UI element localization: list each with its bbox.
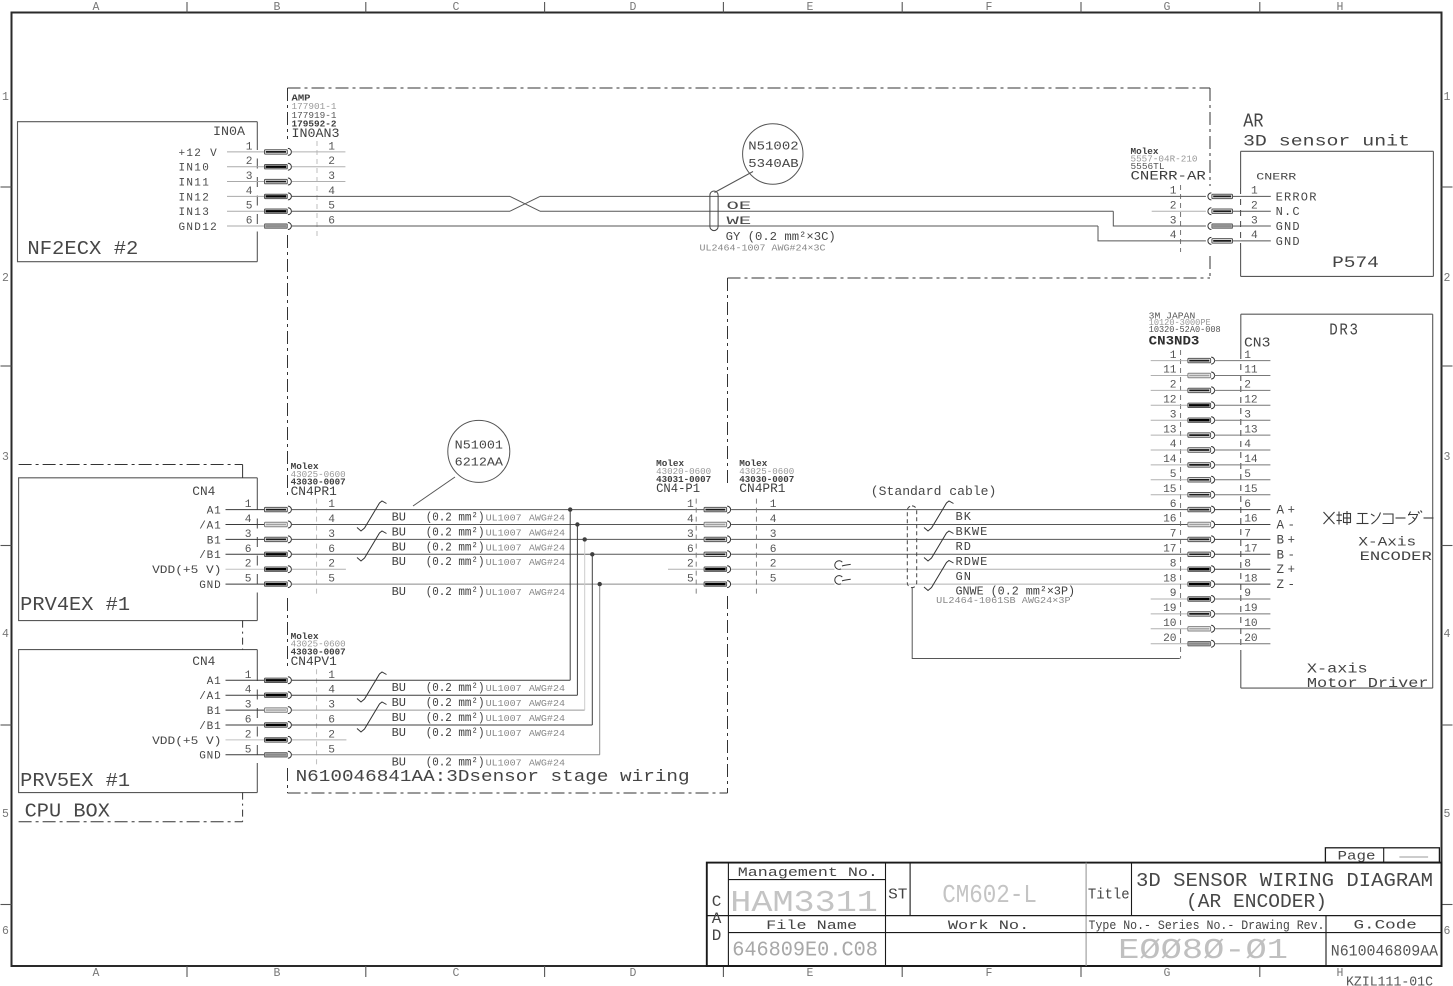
svg-text:(0.2 mm²): (0.2 mm²) — [426, 540, 485, 554]
svg-text:E: E — [807, 967, 814, 980]
svg-text:Work No.: Work No. — [948, 918, 1029, 933]
svg-text:C: C — [453, 1, 460, 14]
svg-text:6: 6 — [687, 544, 694, 556]
svg-text:6: 6 — [1244, 499, 1251, 511]
svg-text:13: 13 — [1244, 424, 1257, 436]
svg-text:4: 4 — [246, 186, 253, 198]
svg-text:HAM3311: HAM3311 — [730, 886, 878, 921]
svg-text:Title: Title — [1088, 887, 1130, 904]
svg-text:IN0AN3: IN0AN3 — [292, 127, 340, 141]
svg-text:4: 4 — [1244, 439, 1251, 451]
svg-text:D: D — [630, 1, 637, 14]
svg-text:/B1: /B1 — [199, 550, 221, 562]
svg-text:12: 12 — [1244, 395, 1257, 407]
svg-text:5: 5 — [1170, 469, 1177, 481]
svg-text:/A1: /A1 — [199, 691, 221, 703]
svg-text:CN3: CN3 — [1244, 335, 1270, 351]
svg-text:Type No.- Series No.- Drawing: Type No.- Series No.- Drawing Rev. — [1089, 918, 1325, 933]
svg-text:10: 10 — [1163, 618, 1177, 630]
svg-text:B: B — [274, 1, 281, 14]
svg-text:G.Code: G.Code — [1354, 918, 1417, 933]
svg-text:BU: BU — [392, 711, 406, 725]
svg-text:ENCODER: ENCODER — [1360, 549, 1432, 564]
svg-text:Management No.: Management No. — [738, 865, 878, 880]
svg-text:3: 3 — [770, 529, 777, 541]
svg-text:AWG#24: AWG#24 — [529, 513, 566, 524]
svg-text:BU: BU — [392, 511, 406, 525]
svg-text:B-: B- — [1277, 548, 1299, 562]
svg-text:BU: BU — [392, 696, 406, 710]
svg-text:6: 6 — [1170, 499, 1177, 511]
svg-text:3: 3 — [245, 700, 252, 712]
svg-text:X-Axis: X-Axis — [1358, 535, 1416, 550]
svg-text:5: 5 — [770, 574, 777, 586]
svg-text:F: F — [986, 967, 993, 980]
svg-text:Page: Page — [1338, 850, 1376, 864]
svg-text:1: 1 — [245, 670, 252, 682]
svg-text:1: 1 — [687, 499, 694, 511]
svg-text:B: B — [274, 967, 281, 980]
svg-text:20: 20 — [1244, 633, 1258, 645]
svg-text:13: 13 — [1163, 424, 1176, 436]
svg-text:CN4-P1: CN4-P1 — [656, 482, 700, 496]
svg-text:RDWE: RDWE — [956, 555, 989, 569]
svg-text:UL1007: UL1007 — [486, 557, 522, 568]
svg-text:AWG#24: AWG#24 — [529, 683, 566, 694]
svg-text:VDD(+5 V): VDD(+5 V) — [152, 565, 221, 577]
svg-text:646809E0.C08: 646809E0.C08 — [732, 939, 878, 962]
svg-text:IN0A: IN0A — [213, 125, 245, 139]
svg-text:10320-52A0-008: 10320-52A0-008 — [1149, 324, 1221, 335]
svg-text:AWG#24: AWG#24 — [529, 698, 566, 709]
svg-text:1: 1 — [245, 499, 252, 511]
svg-text:A: A — [93, 967, 100, 980]
svg-text:(0.2 mm²): (0.2 mm²) — [426, 511, 485, 525]
svg-text:6212AA: 6212AA — [455, 457, 503, 470]
svg-text:3D SENSOR WIRING DIAGRAM: 3D SENSOR WIRING DIAGRAM — [1136, 870, 1433, 892]
svg-text:2: 2 — [770, 559, 777, 571]
svg-text:1: 1 — [1444, 91, 1451, 104]
svg-text:11: 11 — [1163, 365, 1177, 377]
svg-text:N610046809AA: N610046809AA — [1331, 943, 1439, 961]
svg-text:GND: GND — [199, 580, 221, 592]
svg-text:2: 2 — [245, 559, 252, 571]
svg-text:Z+: Z+ — [1277, 563, 1299, 577]
svg-text:PRV5EX #1: PRV5EX #1 — [20, 770, 130, 792]
svg-text:CN4PV1: CN4PV1 — [291, 655, 337, 669]
svg-text:5: 5 — [1444, 808, 1451, 821]
svg-text:P574: P574 — [1332, 254, 1379, 272]
svg-text:A1: A1 — [207, 676, 222, 688]
svg-text:+12 V: +12 V — [179, 148, 219, 160]
svg-text:4: 4 — [245, 514, 252, 526]
svg-text:2: 2 — [245, 729, 252, 741]
svg-text:4: 4 — [687, 514, 694, 526]
svg-text:EØØ8Ø-Ø1: EØØ8Ø-Ø1 — [1118, 934, 1288, 967]
svg-text:B1: B1 — [207, 706, 222, 718]
svg-text:IN13: IN13 — [179, 207, 211, 219]
svg-text:3: 3 — [1170, 215, 1177, 227]
svg-text:7: 7 — [1170, 529, 1177, 541]
svg-text:AWG#24: AWG#24 — [529, 542, 566, 553]
svg-text:C: C — [712, 893, 722, 911]
svg-text:3: 3 — [687, 529, 694, 541]
svg-text:A1: A1 — [207, 506, 222, 518]
svg-text:AR: AR — [1243, 111, 1263, 133]
svg-text:5340AB: 5340AB — [748, 158, 798, 171]
svg-text:BU: BU — [392, 525, 406, 539]
svg-text:C: C — [453, 967, 460, 980]
svg-text:UL1007: UL1007 — [486, 542, 522, 553]
svg-text:1: 1 — [2, 91, 9, 104]
svg-text:IN12: IN12 — [179, 192, 211, 204]
svg-text:A-: A- — [1277, 519, 1299, 533]
svg-text:6: 6 — [770, 544, 777, 556]
svg-text:8: 8 — [1170, 558, 1177, 570]
svg-text:F: F — [986, 1, 993, 14]
svg-text:15: 15 — [1244, 484, 1257, 496]
svg-text:DR3: DR3 — [1329, 321, 1359, 340]
svg-text:BU: BU — [392, 540, 406, 554]
svg-text:File Name: File Name — [766, 918, 857, 933]
svg-text:(0.2 mm²): (0.2 mm²) — [426, 681, 485, 695]
svg-text:6: 6 — [245, 544, 252, 556]
svg-text:D: D — [712, 927, 722, 945]
svg-text:3: 3 — [1251, 215, 1258, 227]
svg-text:2: 2 — [687, 559, 694, 571]
svg-text:CN4: CN4 — [192, 485, 215, 499]
svg-text:6: 6 — [246, 216, 253, 228]
svg-text:PRV4EX #1: PRV4EX #1 — [20, 594, 130, 616]
svg-text:(0.2 mm²): (0.2 mm²) — [426, 585, 485, 599]
svg-text:1: 1 — [1170, 186, 1177, 198]
svg-text:AWG#24: AWG#24 — [529, 587, 566, 598]
svg-text:N.C: N.C — [1276, 205, 1301, 219]
svg-text:2: 2 — [1244, 380, 1251, 392]
svg-text:4: 4 — [1170, 230, 1177, 242]
svg-text:E: E — [807, 1, 814, 14]
svg-text:CN4PR1: CN4PR1 — [291, 485, 337, 499]
svg-text:IN10: IN10 — [179, 163, 211, 175]
svg-text:17: 17 — [1163, 544, 1176, 556]
svg-text:(0.2 mm²): (0.2 mm²) — [426, 696, 485, 710]
svg-text:BU: BU — [392, 726, 406, 740]
svg-text:AWG#24: AWG#24 — [529, 557, 566, 568]
svg-text:CN4: CN4 — [192, 655, 215, 669]
svg-text:5: 5 — [1244, 469, 1251, 481]
svg-text:5: 5 — [246, 201, 253, 213]
svg-text:10: 10 — [1244, 618, 1258, 630]
svg-text:AWG#24: AWG#24 — [529, 728, 566, 739]
svg-text:(Standard cable): (Standard cable) — [871, 485, 997, 499]
svg-text:(0.2 mm²): (0.2 mm²) — [426, 525, 485, 539]
svg-text:8: 8 — [1244, 558, 1251, 570]
svg-text:(0.2 mm²): (0.2 mm²) — [426, 726, 485, 740]
svg-text:3: 3 — [246, 171, 253, 183]
svg-text:OE: OE — [727, 201, 752, 213]
svg-text:UL1007: UL1007 — [486, 683, 522, 694]
svg-text:(0.2 mm²): (0.2 mm²) — [426, 555, 485, 569]
svg-text:4: 4 — [770, 514, 777, 526]
svg-text:7: 7 — [1244, 529, 1251, 541]
svg-text:4: 4 — [2, 628, 9, 641]
svg-text:N51002: N51002 — [748, 141, 798, 154]
svg-text:CPU BOX: CPU BOX — [25, 801, 111, 823]
svg-text:3: 3 — [1244, 409, 1251, 421]
svg-text:18: 18 — [1244, 573, 1257, 585]
svg-text:ERROR: ERROR — [1276, 190, 1318, 204]
svg-text:2: 2 — [2, 272, 9, 285]
svg-text:UL1007: UL1007 — [486, 587, 522, 598]
svg-text:NF2ECX #2: NF2ECX #2 — [27, 238, 138, 260]
svg-text:AWG#24: AWG#24 — [529, 527, 566, 538]
svg-text:BU: BU — [392, 585, 406, 599]
svg-text:2: 2 — [246, 156, 253, 168]
svg-text:19: 19 — [1244, 603, 1257, 615]
svg-text:1: 1 — [246, 141, 253, 153]
svg-text:N51001: N51001 — [455, 440, 503, 453]
svg-text:5: 5 — [687, 574, 694, 586]
svg-text:3: 3 — [1170, 409, 1177, 421]
svg-text:6: 6 — [1444, 925, 1451, 938]
svg-text:Motor Driver: Motor Driver — [1307, 676, 1429, 692]
svg-text:GND: GND — [1276, 235, 1301, 249]
svg-text:17: 17 — [1244, 544, 1257, 556]
svg-text:/B1: /B1 — [199, 721, 221, 733]
svg-text:20: 20 — [1163, 633, 1177, 645]
svg-text:CNERR-AR: CNERR-AR — [1131, 170, 1207, 184]
svg-text:2: 2 — [1170, 380, 1177, 392]
svg-text:BKWE: BKWE — [956, 525, 989, 539]
svg-text:N610046841AA:3Dsensor stage wi: N610046841AA:3Dsensor stage wiring — [296, 767, 690, 786]
svg-text:11: 11 — [1244, 365, 1258, 377]
svg-text:(0.2 mm²): (0.2 mm²) — [426, 711, 485, 725]
svg-text:BU: BU — [392, 555, 406, 569]
svg-text:ST: ST — [888, 887, 907, 904]
svg-text:2: 2 — [1251, 200, 1258, 212]
svg-text:9: 9 — [1170, 588, 1177, 600]
svg-text:4: 4 — [1251, 230, 1258, 242]
svg-text:CNERR: CNERR — [1256, 172, 1297, 184]
svg-text:WE: WE — [727, 216, 752, 228]
svg-text:4: 4 — [1444, 628, 1451, 641]
svg-text:GND: GND — [1276, 220, 1301, 234]
svg-text:14: 14 — [1244, 454, 1258, 466]
svg-text:KZIL111-01C: KZIL111-01C — [1346, 976, 1433, 986]
svg-text:BU: BU — [392, 681, 406, 695]
svg-text:6: 6 — [245, 715, 252, 727]
svg-text:GN: GN — [956, 570, 972, 584]
svg-text:H: H — [1337, 1, 1344, 14]
svg-text:UL2464-1061SB AWG24×3P: UL2464-1061SB AWG24×3P — [936, 595, 1071, 606]
svg-text:3: 3 — [1444, 451, 1451, 464]
svg-text:D: D — [630, 967, 637, 980]
svg-text:B+: B+ — [1277, 533, 1299, 547]
svg-text:9: 9 — [1244, 588, 1251, 600]
svg-text:2: 2 — [1170, 200, 1177, 212]
svg-text:(AR ENCODER): (AR ENCODER) — [1186, 891, 1327, 913]
svg-text:5: 5 — [245, 574, 252, 586]
svg-text:/A1: /A1 — [199, 520, 221, 532]
svg-text:1: 1 — [1251, 186, 1258, 198]
svg-text:14: 14 — [1163, 454, 1177, 466]
svg-text:UL1007: UL1007 — [486, 527, 522, 538]
svg-text:UL1007: UL1007 — [486, 728, 522, 739]
svg-text:IN11: IN11 — [179, 177, 211, 189]
svg-text:18: 18 — [1163, 573, 1176, 585]
svg-text:3: 3 — [245, 529, 252, 541]
svg-text:G: G — [1164, 1, 1171, 14]
svg-text:16: 16 — [1244, 514, 1257, 526]
svg-text:5: 5 — [2, 808, 9, 821]
svg-text:AWG#24: AWG#24 — [529, 713, 566, 724]
svg-text:G: G — [1164, 967, 1171, 980]
svg-text:Z-: Z- — [1277, 578, 1299, 592]
svg-text:GND12: GND12 — [179, 222, 219, 234]
svg-text:2: 2 — [1444, 272, 1451, 285]
svg-text:1: 1 — [1244, 350, 1251, 362]
svg-text:RD: RD — [956, 540, 972, 554]
svg-text:UL1007: UL1007 — [486, 513, 522, 524]
svg-text:CN3ND3: CN3ND3 — [1149, 335, 1200, 349]
svg-text:6: 6 — [2, 925, 9, 938]
svg-text:16: 16 — [1163, 514, 1176, 526]
svg-text:VDD(+5 V): VDD(+5 V) — [152, 736, 221, 748]
svg-text:A: A — [712, 910, 722, 928]
svg-text:1: 1 — [770, 499, 777, 511]
svg-text:12: 12 — [1163, 395, 1176, 407]
svg-text:UL1007: UL1007 — [486, 698, 522, 709]
svg-text:1: 1 — [1170, 350, 1177, 362]
svg-text:19: 19 — [1163, 603, 1176, 615]
svg-text:5: 5 — [245, 744, 252, 756]
svg-text:A+: A+ — [1277, 504, 1299, 518]
svg-text:CM602-L: CM602-L — [942, 880, 1037, 910]
svg-text:4: 4 — [1170, 439, 1177, 451]
svg-text:15: 15 — [1163, 484, 1176, 496]
svg-text:BK: BK — [956, 510, 972, 524]
svg-text:3D sensor unit: 3D sensor unit — [1243, 133, 1410, 151]
svg-text:H: H — [1337, 967, 1344, 980]
svg-text:UL2464-1007 AWG#24×3C: UL2464-1007 AWG#24×3C — [700, 243, 827, 254]
svg-text:A: A — [93, 1, 100, 14]
svg-text:UL1007: UL1007 — [486, 713, 522, 724]
svg-text:4: 4 — [245, 685, 252, 697]
svg-text:3: 3 — [2, 451, 9, 464]
svg-text:CN4PR1: CN4PR1 — [739, 482, 785, 496]
svg-text:GND: GND — [199, 751, 221, 763]
svg-text:B1: B1 — [207, 535, 222, 547]
